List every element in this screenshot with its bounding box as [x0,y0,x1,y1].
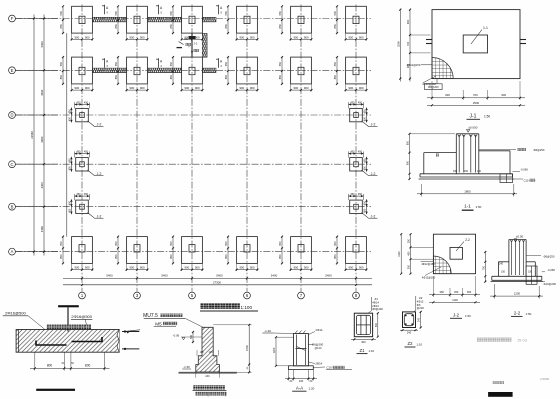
left dimension chain total [30,15,35,256]
wall section: note M5 [154,321,178,326]
footing J-1 row A col 6 [333,236,368,271]
brick wall vertical at column 3 [202,33,207,57]
svg-text:900: 900 [501,93,506,97]
wall section: hatched wall with steps [196,327,220,372]
footing J-1 row E col 3 [169,56,204,91]
svg-text:900: 900 [348,86,353,90]
svg-text:Φ8@200: Φ8@200 [428,85,439,89]
svg-text:1100: 1100 [398,251,401,257]
svg-text:850: 850 [278,24,282,29]
axis extension left [16,251,59,253]
svg-text:A-A: A-A [296,385,303,390]
wall section: note MU7.5 [143,313,203,327]
svg-text:900: 900 [304,86,309,90]
brick wall row F from x203 to x216 [203,17,216,22]
axis bubble 1 [79,292,86,299]
detail J-2 plan: title [450,313,471,319]
svg-text:1-1: 1-1 [464,204,471,209]
section 1-1: column with rebars [456,134,479,174]
svg-text:C: C [10,162,13,167]
svg-text:J-1: J-1 [470,113,477,119]
bottom dimension chain segments [63,274,372,280]
wall section: right dim chain [213,324,251,374]
section 1-1: right labels [479,148,545,183]
axis line row C [16,163,372,165]
section 2-2: title [511,311,532,317]
svg-text:900: 900 [239,266,244,270]
note: light gray text about main building foundation [477,337,528,342]
svg-text:900: 900 [239,86,244,90]
footing J-1 row E col 1 [59,56,94,91]
svg-text:1-1: 1-1 [483,26,488,30]
footing J-2 at x356 y164 [349,151,378,176]
svg-text:850: 850 [59,254,63,259]
axis bubble C [9,161,16,168]
section A-A: left dim [272,336,294,367]
svg-text:900: 900 [195,35,200,39]
svg-text:800: 800 [85,364,91,368]
section A-A: wall with rebars [294,331,309,366]
svg-text:900: 900 [195,266,200,270]
axis extension left [16,69,59,71]
axis bubble F [9,15,16,22]
axis line row D [16,114,372,116]
axis bubble 5 [189,292,196,299]
svg-text:850: 850 [169,74,173,79]
svg-text:900: 900 [406,19,410,24]
detail J-2 plan: rebar mesh quarter [433,256,451,274]
svg-text:900: 900 [293,35,298,39]
section 2-2: right labels [526,255,556,287]
detail J-1 plan: mesh note box [425,79,443,90]
svg-text:4Φ12@150: 4Φ12@150 [422,275,436,279]
svg-text:900: 900 [304,35,309,39]
svg-text:450: 450 [454,290,459,294]
axis line column 5 [300,5,302,292]
svg-text:1:50: 1:50 [476,205,482,209]
wall section: -1.50 mark [182,365,191,369]
detail J-1 plan: leader 1-1 [471,26,488,44]
svg-text:-0.060: -0.060 [520,167,528,171]
svg-text:550: 550 [224,241,228,246]
section 2-2: footing outline [491,262,544,282]
footing J-1 row E col 5 [278,56,313,91]
svg-text:450: 450 [350,151,355,154]
footing J-2 at x82 y115 [68,101,103,126]
section 1-1: bottom dim [417,184,517,197]
title: foundation plan layout 1:100 [200,303,258,311]
column section Z1: title [357,348,375,354]
section A-A: title [292,385,314,391]
svg-text:115: 115 [209,351,213,354]
section A-A: bottom dims [285,370,317,384]
title block black bar [488,392,512,397]
svg-text:C10: C10 [327,366,333,370]
svg-text:900: 900 [129,86,134,90]
svg-text:J-2: J-2 [97,214,102,218]
axis line row F [16,18,372,20]
svg-text:4Φ14: 4Φ14 [372,300,379,304]
svg-text:-1.20: -1.20 [264,329,271,333]
svg-text:27300: 27300 [213,280,221,284]
svg-text:@100: @100 [315,347,322,350]
svg-text:J-2: J-2 [453,313,460,318]
axis line row A [16,251,372,253]
svg-text:900: 900 [129,35,134,39]
svg-text:550: 550 [224,11,228,16]
section marker A [216,5,223,15]
svg-text:850: 850 [114,24,118,29]
svg-text:450: 450 [84,193,89,196]
svg-text:750: 750 [482,265,485,270]
detail J-2 plan: leader 2-2 [456,238,470,251]
svg-text:550: 550 [59,11,63,16]
axis extension left [16,18,59,20]
svg-text:550: 550 [224,61,228,66]
svg-text:550: 550 [278,61,282,66]
wall section: bottom small dims [196,372,220,378]
svg-text:-0.06: -0.06 [173,334,180,338]
brick wall row E from x203 to x216 [203,68,216,73]
svg-text:Φ6@250: Φ6@250 [534,148,545,152]
svg-text:D: D [10,113,13,118]
svg-text:4300: 4300 [40,182,44,188]
svg-text:240: 240 [205,375,210,378]
detail J-1 plan: outer footing rectangle [432,10,520,79]
svg-text:J-1: J-1 [194,42,198,46]
strip foundation: rebar note right [71,314,93,330]
svg-text:@200: @200 [417,306,425,310]
svg-text:900: 900 [239,35,244,39]
svg-text:2-2: 2-2 [514,311,521,316]
footing J-1 row A col 4 [224,236,259,271]
section marker A [216,58,223,68]
svg-text:950: 950 [407,160,410,165]
svg-text:5400: 5400 [325,274,332,278]
section A-A: base pad [289,366,314,370]
section marker A [156,58,163,68]
left dimension chain inner [40,15,45,256]
axis bubble B [9,203,16,210]
svg-text:5400: 5400 [161,274,168,278]
svg-text:J5-03: J5-03 [517,337,528,342]
svg-text:850: 850 [224,74,228,79]
svg-text:5400: 5400 [216,274,223,278]
svg-text:900: 900 [184,266,189,270]
footing J-1 row F col 6 [333,5,368,40]
svg-text:900: 900 [85,35,90,39]
svg-text:900: 900 [74,35,79,39]
svg-text:23580: 23580 [30,131,34,139]
svg-text:J-2: J-2 [97,172,102,176]
svg-text:4Φ12@150: 4Φ12@150 [421,262,435,266]
caption foundation details [493,381,504,384]
svg-text:2-2: 2-2 [465,238,470,242]
svg-text:2Φ14: 2Φ14 [316,328,323,332]
svg-text:900: 900 [140,266,145,270]
svg-text:550: 550 [333,241,337,246]
svg-text:±0.00: ±0.00 [516,235,524,239]
svg-text:450: 450 [408,251,411,256]
svg-text:1500: 1500 [245,345,249,351]
svg-text:E: E [11,68,14,73]
svg-text:450: 450 [76,101,81,104]
svg-text:900: 900 [406,63,410,68]
axis bubble D [9,112,16,119]
svg-text:2500: 2500 [396,41,400,47]
svg-text:900: 900 [74,86,79,90]
svg-text:900: 900 [129,266,134,270]
axis line column 1 [81,5,83,292]
strip foundation: bottom dims [30,352,110,370]
footing J-1 row E col 4 [224,56,259,91]
svg-text:550: 550 [278,11,282,16]
svg-text:F: F [11,16,14,21]
svg-text:850: 850 [333,24,337,29]
footing J-1 row A col 1 [59,236,94,271]
svg-text:900: 900 [359,266,364,270]
svg-text:450: 450 [68,208,71,213]
svg-text:1800: 1800 [464,189,471,193]
svg-text:900: 900 [304,266,309,270]
svg-text:1200: 1200 [514,291,521,295]
svg-text:Z1: Z1 [360,348,366,353]
svg-text:Φ10@200: Φ10@200 [544,282,557,286]
strip foundation: title bar [36,389,75,391]
footing J-1 row F col 4 [224,5,259,40]
svg-text:450: 450 [68,109,71,114]
svg-text:850: 850 [407,140,410,145]
svg-text:1:10: 1:10 [369,349,375,353]
svg-text:150: 150 [501,270,506,273]
svg-text:): ) [225,392,226,396]
axis line row E [16,69,372,71]
detail J-2 plan: bottom dim chain [429,276,480,303]
svg-text:900: 900 [195,86,200,90]
svg-text:450: 450 [68,200,71,205]
svg-text:Z2: Z2 [419,296,423,300]
svg-text:900: 900 [250,266,255,270]
svg-text:450: 450 [84,101,89,104]
svg-text:800: 800 [47,364,53,368]
svg-text:700: 700 [406,41,410,46]
svg-text:450: 450 [358,193,363,196]
svg-text:240: 240 [418,317,421,322]
brick wall row F from x148 to x182 [148,17,182,22]
svg-text:850: 850 [278,74,282,79]
wall section: title [193,385,227,396]
svg-text:900: 900 [250,35,255,39]
axis bubble 3 [134,292,141,299]
svg-text:550: 550 [278,241,282,246]
svg-text:550: 550 [333,61,337,66]
bottom dimension chain total [63,280,372,286]
svg-text:850: 850 [333,74,337,79]
svg-text:150: 150 [453,170,458,173]
footing J-1 row E col 6 [333,56,368,91]
svg-text:900: 900 [250,86,255,90]
footing J-1 row F col 2 [114,5,149,40]
svg-text:C10: C10 [524,179,529,183]
svg-text:4500: 4500 [40,89,44,95]
detail J-1 plan: inner column rectangle [463,35,487,53]
axis line column 2 [136,5,138,292]
svg-text:-0.060: -0.060 [547,268,555,272]
footing J-1 row A col 2 [114,236,149,271]
footing J-1 row A col 3 [169,236,204,271]
section A-A: level note +1.20 [262,329,293,334]
detail J-1 plan: section cut marks [426,40,526,44]
svg-text:900: 900 [445,93,450,97]
svg-text:350: 350 [467,290,472,294]
detail J-1 plan: bottom dim chain [427,81,525,106]
svg-text:5400: 5400 [40,41,44,47]
axis extension left [16,163,59,165]
detail J-1 plan: title [467,113,491,119]
svg-text:J-2: J-2 [97,123,102,127]
svg-text:J-2: J-2 [371,172,376,176]
svg-text:±0.000: ±0.000 [468,126,477,130]
svg-text:1:50: 1:50 [526,312,532,316]
svg-text:450: 450 [350,193,355,196]
strip foundation: note chinese [47,325,91,330]
svg-text:4480: 4480 [40,226,44,232]
section 2-2: ground beam box [526,266,537,284]
svg-text:1:100: 1:100 [241,305,253,310]
svg-text:450: 450 [364,116,367,121]
wall section: 115 115 dims [197,350,218,356]
svg-text:Φ6: Φ6 [417,303,421,307]
svg-text:J-2: J-2 [371,214,376,218]
svg-text:A: A [11,249,14,254]
svg-text:Φ6@200: Φ6@200 [372,307,383,311]
axis bubble E [9,67,16,74]
svg-text:J-2: J-2 [371,123,376,127]
svg-text:850: 850 [59,74,63,79]
svg-text:450: 450 [76,193,81,196]
svg-text:M5: M5 [155,321,162,326]
svg-text:350: 350 [408,238,411,243]
svg-text:150: 150 [528,270,533,273]
svg-text:450: 450 [68,116,71,121]
svg-text:350: 350 [440,290,445,294]
svg-text:850: 850 [59,24,63,29]
svg-text:450: 450 [364,200,367,205]
svg-text:550: 550 [169,241,173,246]
axis line column 3 [191,5,193,292]
wall edge line left of column 1 [66,33,68,237]
column section Z1: spec text [368,297,383,313]
strip foundation: slab with hatch [16,330,119,353]
svg-text:Z2: Z2 [408,341,414,346]
svg-text:450: 450 [68,166,71,171]
svg-text:4Φ12: 4Φ12 [417,299,424,303]
svg-text:900: 900 [184,86,189,90]
axis line row B [16,206,372,208]
svg-text:-1.50: -1.50 [183,365,190,369]
svg-text:850: 850 [169,24,173,29]
section 1-1: ground beam box [500,174,513,183]
svg-text:900: 900 [348,35,353,39]
detail J-2 plan: outer square [433,234,475,274]
svg-text:1200: 1200 [272,347,276,353]
svg-text:1:50: 1:50 [484,115,490,119]
wall section: level mark left [173,334,202,340]
svg-text:240: 240 [299,379,304,383]
svg-text:M5: M5 [184,38,188,41]
svg-text:5400: 5400 [106,274,113,278]
axis line column 4 [246,5,248,292]
section marker A [102,5,109,15]
axis extension left [16,114,59,116]
svg-text:550: 550 [333,11,337,16]
wall section: ground line [179,372,237,373]
svg-text:500: 500 [190,334,193,339]
svg-text:900: 900 [85,86,90,90]
svg-text:2Φ14: 2Φ14 [315,361,322,365]
svg-text:1100: 1100 [452,298,458,302]
svg-text:450: 450 [68,158,71,163]
footing J-2 at x356 y207 [349,193,378,218]
svg-text:240: 240 [499,262,504,265]
svg-text:350: 350 [408,264,411,269]
svg-text:450: 450 [84,151,89,154]
svg-text:150: 150 [464,170,469,173]
brick wall row F from x92 to x127 [93,17,127,22]
svg-text:1:10: 1:10 [417,343,423,347]
svg-text:850: 850 [114,74,118,79]
svg-text:550: 550 [114,11,118,16]
section 2-2: column with rebars [509,240,526,277]
section 2-2: left dim chain [482,251,486,283]
svg-text:900: 900 [359,35,364,39]
svg-text:450: 450 [364,166,367,171]
section marker A [156,5,163,15]
svg-text:550: 550 [114,61,118,66]
wall section: small left dim [190,331,194,343]
section A-A: leader to C10 note [313,366,352,370]
svg-text:Φ6@250: Φ6@250 [544,255,555,259]
svg-text:850: 850 [224,254,228,259]
svg-text:900: 900 [348,266,353,270]
svg-text:240: 240 [407,330,412,334]
svg-text:450: 450 [364,208,367,213]
svg-text:850: 850 [224,24,228,29]
svg-text:1:20: 1:20 [309,387,315,391]
svg-text:450: 450 [364,158,367,163]
footing J-1 row A col 5 [278,236,313,271]
footing J-1 row F col 1 [59,5,94,40]
sheet number J-5002 [540,377,550,381]
svg-text:550: 550 [59,241,63,246]
svg-text:850: 850 [169,254,173,259]
svg-text:550: 550 [59,61,63,66]
column section Z2: spec text [413,296,424,312]
svg-text:900: 900 [359,86,364,90]
section A-A: right labels [308,328,323,366]
column section Z2 [403,312,416,328]
svg-text:900: 900 [140,86,145,90]
svg-text:450: 450 [358,151,363,154]
detail J-1 plan: rebar mesh quarter [432,57,453,78]
svg-text:Φ6@200: Φ6@200 [312,342,324,346]
strip foundation: right bar symbols [122,330,139,350]
svg-text:4900: 4900 [40,136,44,142]
column section Z2: title [405,341,423,347]
svg-text:450: 450 [76,151,81,154]
svg-text:850: 850 [333,254,337,259]
svg-text:900: 900 [293,86,298,90]
